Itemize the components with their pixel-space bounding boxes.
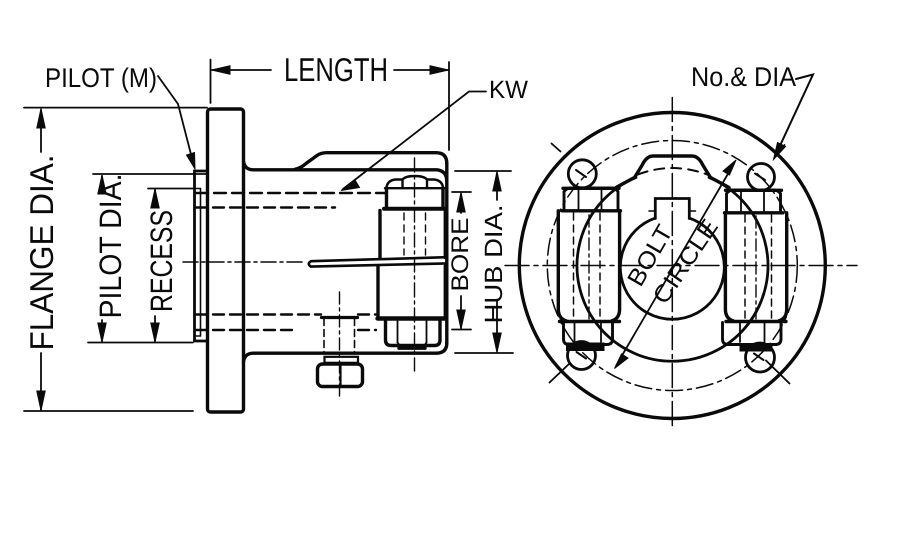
svg-text:PILOT DIA.: PILOT DIA. — [93, 174, 128, 319]
svg-text:PILOT (M): PILOT (M) — [45, 63, 157, 93]
svg-text:KW: KW — [489, 76, 528, 104]
svg-text:LENGTH: LENGTH — [284, 51, 388, 88]
svg-text:HUB DIA.: HUB DIA. — [480, 205, 508, 324]
svg-text:BORE: BORE — [447, 218, 474, 292]
svg-text:No.& DIA: No.& DIA — [691, 62, 796, 92]
svg-text:RECESS: RECESS — [144, 210, 179, 312]
svg-text:FLANGE DIA.: FLANGE DIA. — [23, 155, 60, 351]
